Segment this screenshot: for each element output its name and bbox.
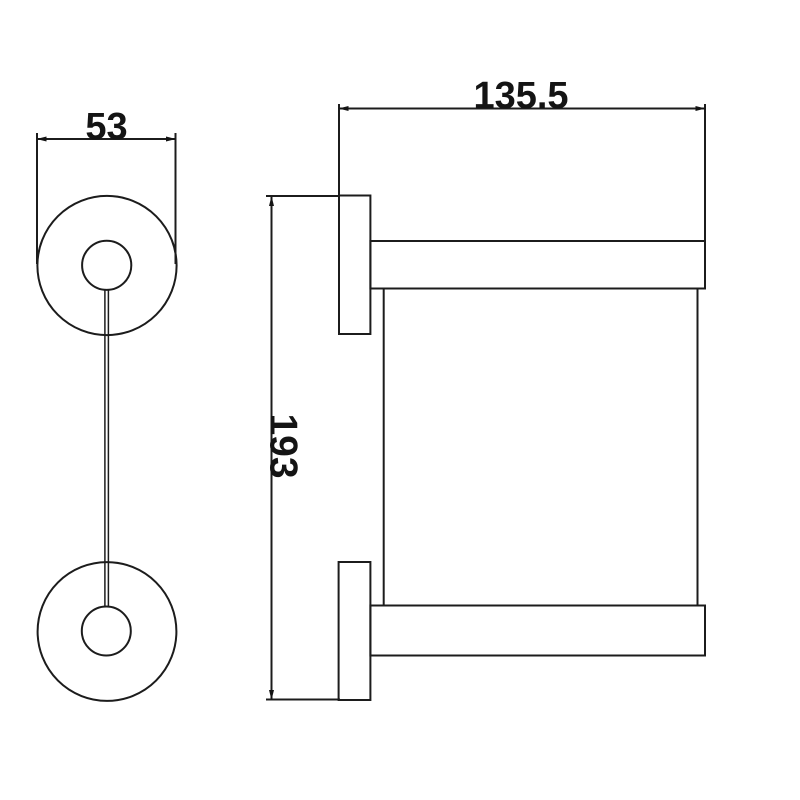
rod right line xyxy=(107,290,109,607)
svg-text:53: 53 xyxy=(85,106,127,148)
arrow dim53 left xyxy=(37,137,47,142)
arrow dim53 right xyxy=(166,137,176,142)
dim 193 bottom ext line xyxy=(266,699,340,701)
dim 135.5 right ext line xyxy=(704,104,706,241)
arrow dim193 bottom xyxy=(269,690,274,700)
top bar xyxy=(370,241,705,289)
top wall plate xyxy=(339,196,370,335)
dim 135.5 left ext line xyxy=(338,104,340,196)
dim 53 line xyxy=(37,138,176,140)
dim 193 line xyxy=(271,197,273,700)
bottom outer circle xyxy=(38,562,177,701)
arrow dim135.5 left xyxy=(339,106,349,111)
main body xyxy=(384,289,698,606)
bottom inner circle xyxy=(82,607,131,656)
bottom bar xyxy=(370,606,705,656)
top inner circle xyxy=(82,241,131,290)
top outer circle xyxy=(37,196,176,335)
dim 193 top ext line xyxy=(266,195,340,197)
bottom wall plate xyxy=(339,562,371,700)
dim 53 right ext line xyxy=(175,133,177,264)
dim 135.5 line xyxy=(339,108,705,110)
arrow dim135.5 right xyxy=(696,106,706,111)
rod left line xyxy=(104,290,106,607)
dim 53 left ext line xyxy=(36,133,38,264)
arrow dim193 top xyxy=(269,196,274,206)
svg-text:135.5: 135.5 xyxy=(473,75,568,117)
svg-text:193: 193 xyxy=(262,413,305,478)
